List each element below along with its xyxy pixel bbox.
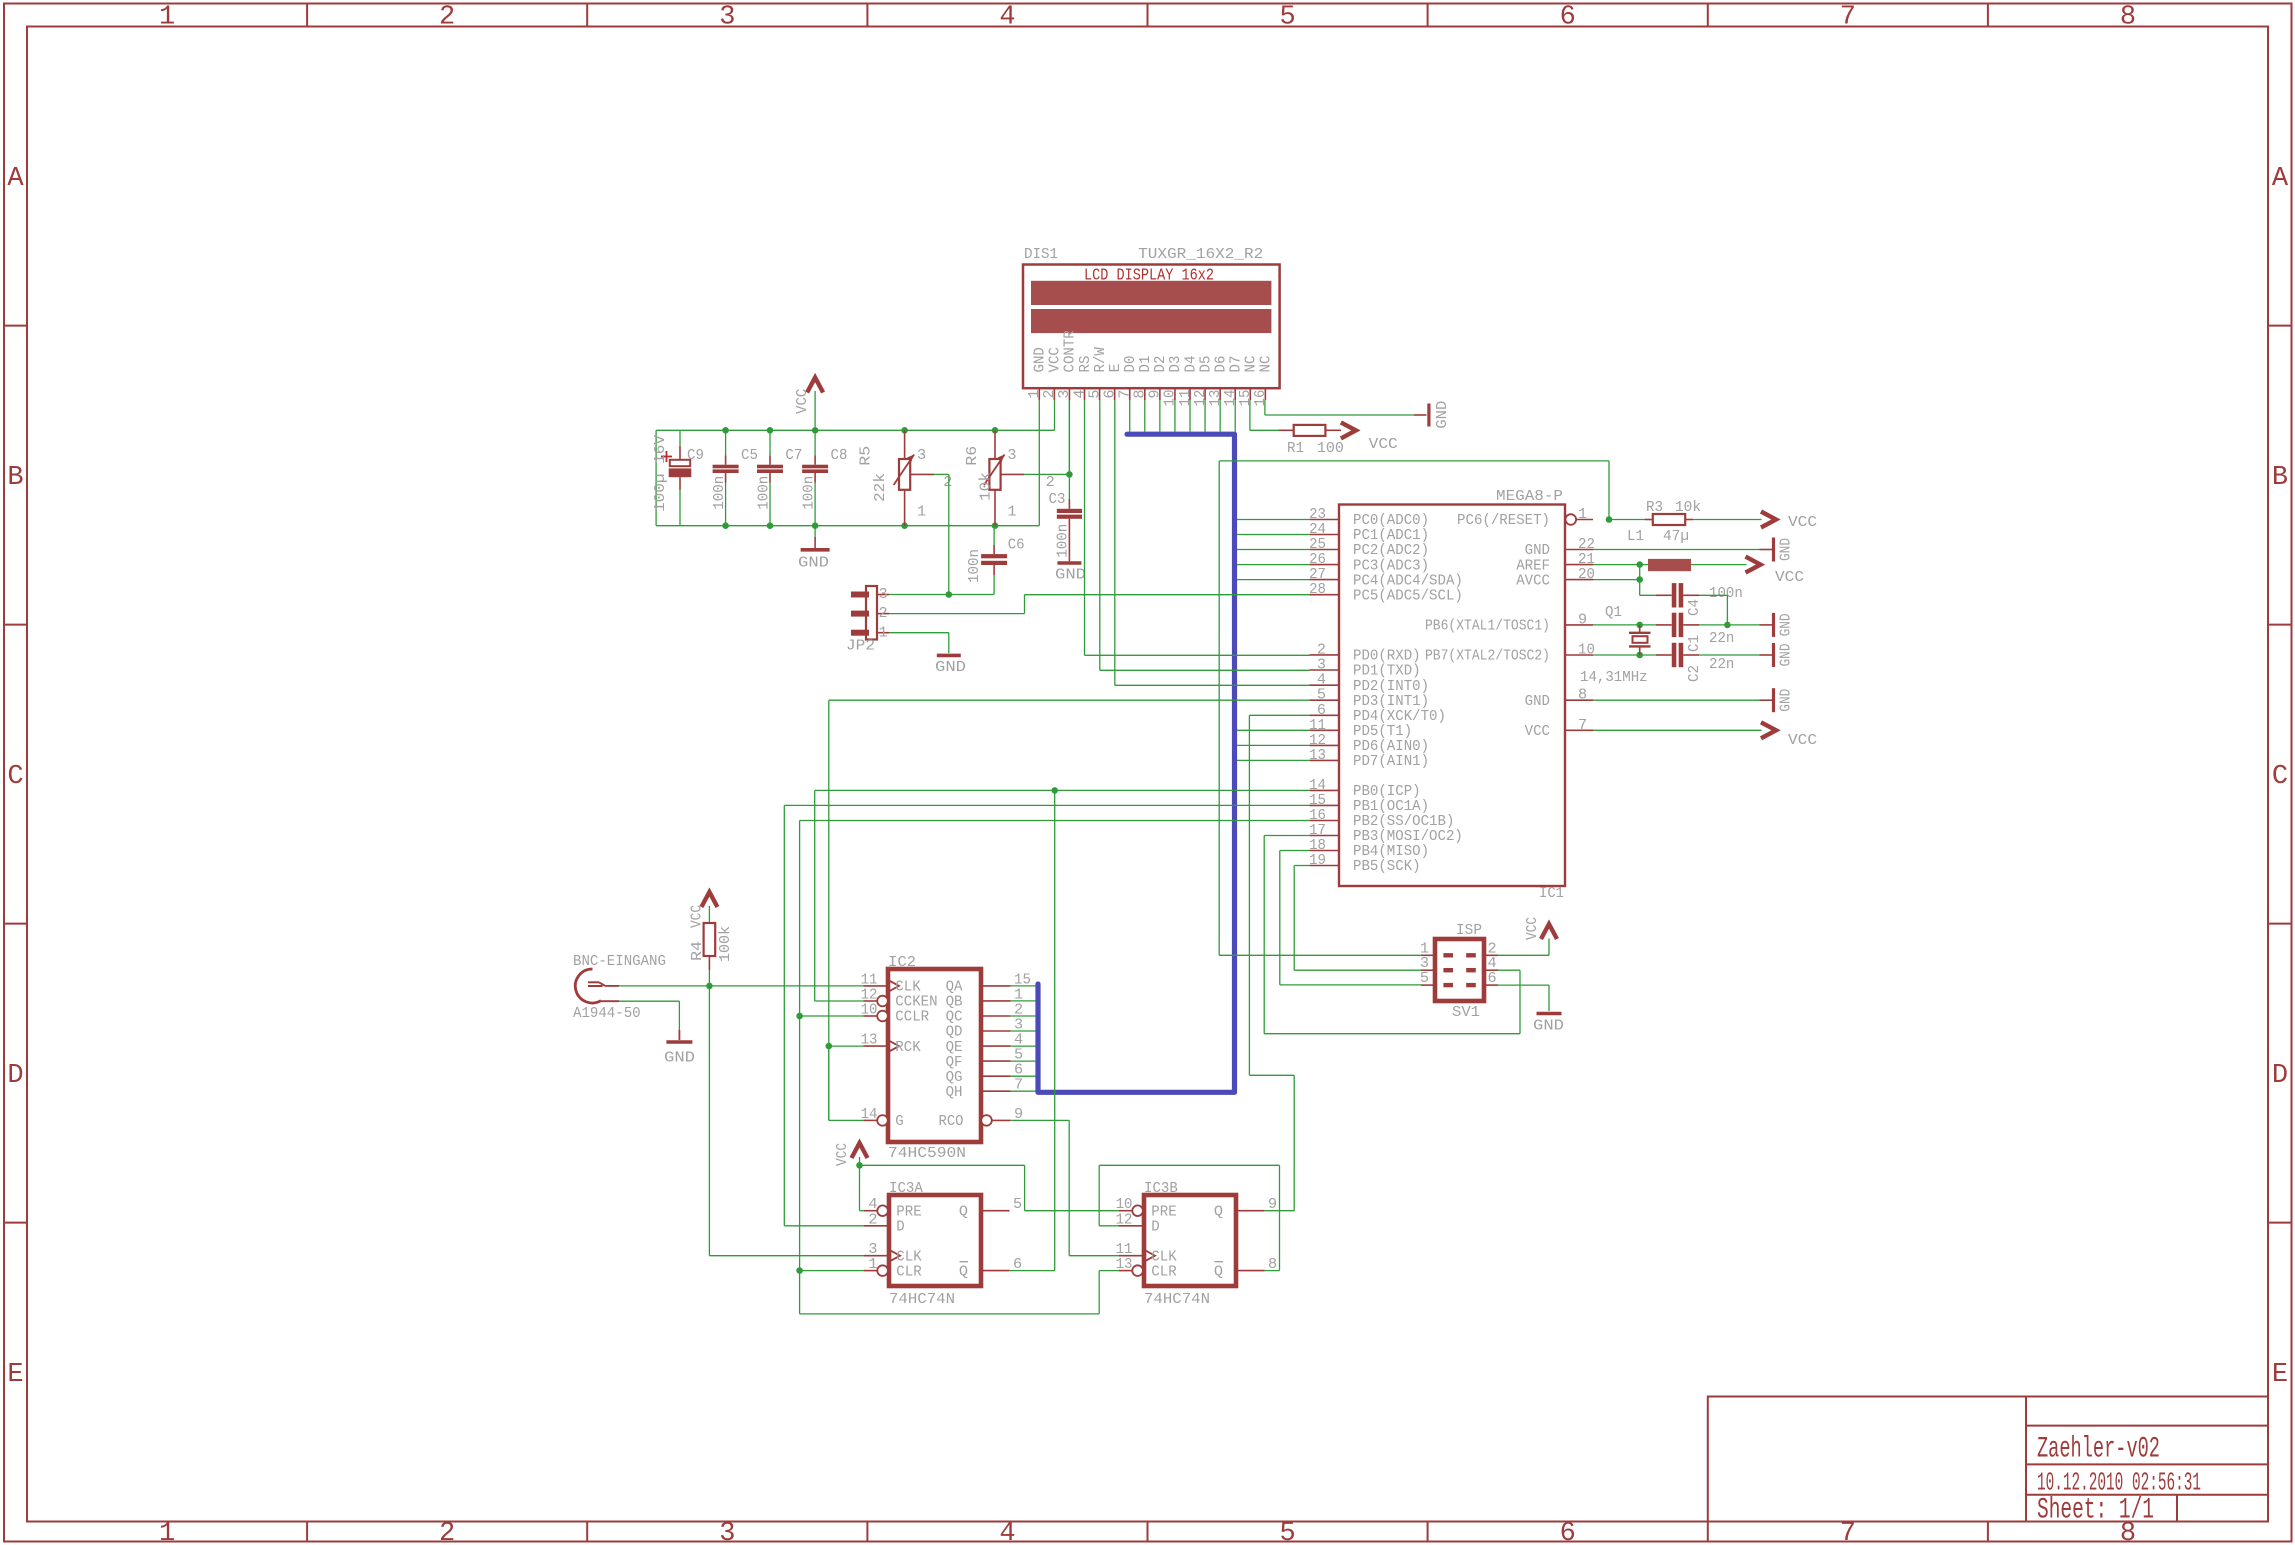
- svg-text:Q: Q: [959, 1262, 968, 1280]
- svg-text:3: 3: [1007, 446, 1016, 464]
- svg-text:QH: QH: [946, 1083, 963, 1101]
- svg-text:E: E: [7, 1360, 23, 1390]
- svg-text:7: 7: [1840, 3, 1856, 33]
- svg-text:22n: 22n: [1709, 655, 1734, 673]
- svg-text:Sheet: 1/1: Sheet: 1/1: [2037, 1494, 2154, 1528]
- svg-text:3: 3: [719, 1519, 735, 1545]
- svg-text:GND: GND: [1525, 692, 1550, 710]
- svg-text:IC1: IC1: [1539, 884, 1564, 902]
- svg-text:100: 100: [1317, 439, 1344, 457]
- svg-text:MEGA8-P: MEGA8-P: [1496, 487, 1563, 505]
- svg-text:5: 5: [1420, 969, 1429, 987]
- svg-text:2: 2: [868, 1210, 877, 1228]
- svg-text:2: 2: [943, 473, 952, 491]
- svg-text:8: 8: [1578, 686, 1587, 704]
- svg-text:VCC: VCC: [1788, 514, 1817, 531]
- svg-text:Q: Q: [1214, 1202, 1223, 1220]
- svg-text:Q: Q: [1214, 1262, 1223, 1280]
- svg-text:C: C: [2272, 762, 2288, 792]
- svg-text:B: B: [7, 463, 23, 493]
- svg-text:VCC: VCC: [793, 389, 811, 414]
- svg-text:VCC: VCC: [1775, 569, 1804, 586]
- svg-text:GND: GND: [1533, 1018, 1564, 1035]
- svg-text:100n: 100n: [800, 476, 818, 510]
- svg-text:Zaehler-v02: Zaehler-v02: [2037, 1433, 2160, 1467]
- svg-text:100n: 100n: [1709, 584, 1743, 602]
- svg-text:4: 4: [999, 3, 1015, 33]
- svg-text:CLR: CLR: [896, 1262, 921, 1280]
- svg-text:100n: 100n: [755, 476, 773, 510]
- svg-text:D: D: [896, 1218, 904, 1236]
- svg-text:ISP: ISP: [1456, 921, 1482, 939]
- svg-text:GND: GND: [798, 555, 829, 572]
- svg-text:100n: 100n: [710, 476, 728, 510]
- svg-text:GND: GND: [1434, 401, 1451, 429]
- svg-text:C3: C3: [1049, 490, 1066, 508]
- svg-text:PD7(AIN1): PD7(AIN1): [1353, 752, 1429, 770]
- svg-text:PB5(SCK): PB5(SCK): [1353, 857, 1421, 875]
- svg-text:4: 4: [999, 1519, 1015, 1545]
- svg-text:IC3B: IC3B: [1144, 1179, 1178, 1197]
- svg-text:3: 3: [917, 446, 926, 464]
- svg-text:G: G: [895, 1112, 903, 1130]
- svg-text:TUXGR_16X2_R2: TUXGR_16X2_R2: [1138, 245, 1263, 263]
- svg-text:C5: C5: [741, 446, 758, 464]
- svg-text:GND: GND: [1778, 613, 1795, 636]
- svg-text:A: A: [7, 164, 24, 194]
- svg-text:A: A: [2272, 164, 2289, 194]
- svg-text:14,31MHz: 14,31MHz: [1580, 668, 1648, 686]
- svg-text:DIS1: DIS1: [1024, 245, 1058, 263]
- svg-text:1: 1: [159, 3, 175, 33]
- svg-text:BNC-EINGANG: BNC-EINGANG: [573, 952, 666, 970]
- svg-text:22n: 22n: [1709, 629, 1734, 647]
- svg-text:3: 3: [719, 3, 735, 33]
- svg-text:6: 6: [1560, 1519, 1576, 1545]
- svg-text:1: 1: [1007, 503, 1016, 521]
- svg-text:28: 28: [1309, 580, 1326, 598]
- svg-text:CCLR: CCLR: [895, 1008, 929, 1026]
- svg-text:C8: C8: [831, 446, 848, 464]
- svg-text:74HC74N: 74HC74N: [889, 1291, 955, 1308]
- svg-text:Q: Q: [959, 1202, 968, 1220]
- svg-text:VCC: VCC: [1788, 732, 1817, 749]
- svg-text:2: 2: [439, 3, 455, 33]
- svg-text:PC6(/RESET): PC6(/RESET): [1457, 511, 1550, 529]
- svg-text:R5: R5: [857, 446, 875, 466]
- svg-text:74HC590N: 74HC590N: [888, 1145, 966, 1162]
- svg-text:IC3A: IC3A: [889, 1179, 924, 1197]
- svg-text:5: 5: [1279, 1519, 1295, 1545]
- svg-text:100n: 100n: [965, 549, 983, 583]
- svg-text:74HC74N: 74HC74N: [1144, 1291, 1210, 1308]
- svg-text:1: 1: [1578, 505, 1587, 523]
- svg-text:D: D: [7, 1061, 23, 1091]
- svg-text:2: 2: [879, 604, 888, 622]
- svg-text:GND: GND: [1778, 644, 1795, 667]
- svg-text:D: D: [2272, 1061, 2288, 1091]
- svg-text:GND: GND: [1778, 689, 1795, 712]
- svg-text:10k: 10k: [977, 472, 995, 501]
- svg-text:R3: R3: [1646, 498, 1663, 516]
- svg-text:10: 10: [1578, 641, 1595, 659]
- svg-text:16: 16: [1251, 390, 1269, 407]
- svg-text:13: 13: [1309, 746, 1326, 764]
- svg-text:R1: R1: [1287, 439, 1304, 457]
- svg-text:1: 1: [159, 1519, 175, 1545]
- svg-text:A1944-50: A1944-50: [573, 1004, 641, 1022]
- svg-text:PB6(XTAL1/TOSC1): PB6(XTAL1/TOSC1): [1425, 617, 1550, 635]
- svg-text:CLR: CLR: [1151, 1262, 1176, 1280]
- svg-text:GND: GND: [1055, 567, 1086, 584]
- svg-text:20: 20: [1578, 565, 1595, 583]
- svg-text:VCC: VCC: [1523, 917, 1541, 940]
- svg-text:C4: C4: [1685, 599, 1703, 616]
- svg-text:L1: L1: [1627, 527, 1644, 545]
- svg-text:PC5(ADC5/SCL): PC5(ADC5/SCL): [1353, 586, 1463, 604]
- svg-text:9: 9: [1578, 610, 1587, 628]
- svg-text:C7: C7: [785, 446, 802, 464]
- svg-text:22k: 22k: [871, 473, 889, 502]
- svg-text:GND: GND: [935, 659, 966, 676]
- svg-text:VCC: VCC: [1369, 436, 1398, 453]
- svg-text:7: 7: [1840, 1519, 1856, 1545]
- svg-text:47µ: 47µ: [1663, 527, 1689, 545]
- svg-text:C1: C1: [1685, 635, 1703, 652]
- svg-text:VCC: VCC: [833, 1143, 851, 1166]
- svg-text:Q1: Q1: [1605, 603, 1622, 621]
- svg-text:B: B: [2272, 463, 2288, 493]
- svg-text:RCO: RCO: [939, 1112, 964, 1130]
- svg-text:6: 6: [1488, 969, 1497, 987]
- svg-text:SV1: SV1: [1452, 1003, 1480, 1021]
- svg-text:NC: NC: [1257, 356, 1275, 373]
- svg-text:2: 2: [439, 1519, 455, 1545]
- svg-text:C2: C2: [1685, 665, 1703, 682]
- svg-text:3: 3: [879, 585, 888, 603]
- svg-text:5: 5: [1279, 3, 1295, 33]
- svg-text:RCK: RCK: [895, 1038, 921, 1056]
- svg-text:8: 8: [2120, 3, 2136, 33]
- svg-text:19: 19: [1309, 851, 1326, 869]
- svg-text:7: 7: [1578, 716, 1587, 734]
- svg-text:R6: R6: [963, 446, 981, 466]
- svg-text:100k: 100k: [716, 926, 734, 962]
- svg-text:C6: C6: [1008, 536, 1025, 554]
- svg-text:1: 1: [879, 623, 888, 641]
- svg-text:C9: C9: [687, 446, 704, 464]
- svg-text:1: 1: [917, 503, 926, 521]
- svg-text:2: 2: [1046, 473, 1055, 491]
- svg-text:PB7(XTAL2/TOSC2): PB7(XTAL2/TOSC2): [1425, 647, 1550, 665]
- svg-text:IC2: IC2: [888, 953, 916, 971]
- svg-text:6: 6: [1560, 3, 1576, 33]
- svg-text:5: 5: [1013, 1195, 1022, 1213]
- svg-text:R4: R4: [688, 941, 706, 961]
- svg-text:LCD DISPLAY 16x2: LCD DISPLAY 16x2: [1084, 267, 1214, 286]
- svg-text:VCC: VCC: [1525, 722, 1550, 740]
- svg-text:1: 1: [868, 1255, 877, 1273]
- svg-text:10k: 10k: [1675, 498, 1701, 516]
- svg-text:GND: GND: [664, 1050, 695, 1067]
- svg-text:100µ 16V: 100µ 16V: [651, 434, 669, 512]
- svg-text:100n: 100n: [1054, 524, 1072, 558]
- svg-text:D: D: [1151, 1218, 1159, 1236]
- svg-text:AVCC: AVCC: [1516, 571, 1550, 589]
- svg-text:GND: GND: [1778, 538, 1795, 561]
- svg-text:E: E: [2272, 1360, 2288, 1390]
- svg-text:JP2: JP2: [846, 637, 875, 655]
- svg-text:C: C: [7, 762, 23, 792]
